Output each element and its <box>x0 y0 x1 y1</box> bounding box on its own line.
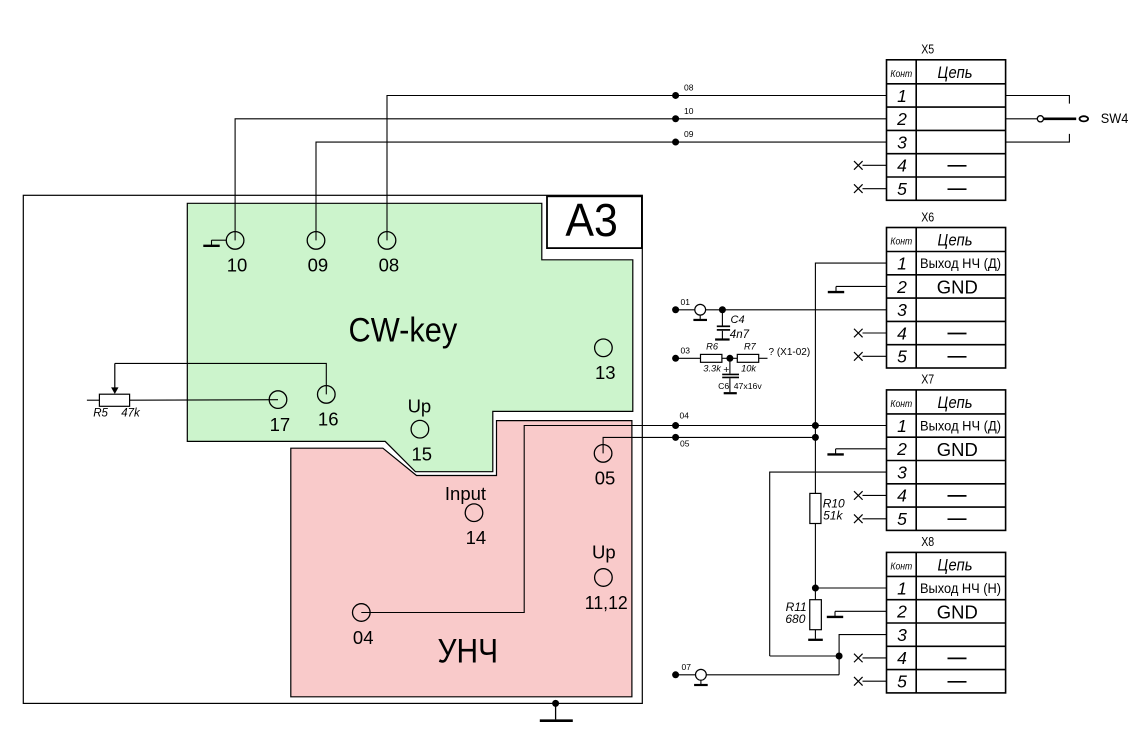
svg-text:15: 15 <box>412 444 433 465</box>
wire R10 to R11 <box>814 524 816 600</box>
wire X7 pin 3 down <box>770 472 887 656</box>
ground symbol under C4 <box>715 338 730 340</box>
svg-text:10: 10 <box>227 255 248 276</box>
connector X6 table <box>887 228 1006 369</box>
svg-text:C4: C4 <box>731 314 745 326</box>
svg-text:13: 13 <box>595 362 616 383</box>
svg-text:2: 2 <box>896 602 907 622</box>
svg-text:X7: X7 <box>921 372 934 387</box>
pin 17 terminal <box>269 391 287 409</box>
X5 pin 5 no-connect dash <box>948 188 967 190</box>
pin 14 terminal <box>465 504 483 522</box>
svg-text:A3: A3 <box>565 194 618 246</box>
pin 13 terminal <box>595 339 613 357</box>
capacitor C4 <box>717 310 730 339</box>
no-connect cross X7 pin 5 <box>854 514 863 523</box>
X7 pin 5 no-connect dash <box>948 518 967 520</box>
wire net 07 <box>676 674 840 676</box>
svg-text:CW-key: CW-key <box>349 311 458 349</box>
X5 pin 4 no-connect dash <box>948 165 967 167</box>
svg-text:? (X1-02): ? (X1-02) <box>769 347 811 358</box>
wire X5 pin 1 to SW4 throw A <box>1006 96 1070 104</box>
svg-text:5: 5 <box>897 509 907 529</box>
svg-text:4: 4 <box>897 156 907 176</box>
pin 08 terminal <box>378 232 396 250</box>
junction node net 03 left <box>672 355 679 362</box>
ground symbol at enclosure bottom <box>540 703 573 720</box>
svg-text:4: 4 <box>897 648 907 668</box>
svg-text:08: 08 <box>684 83 694 93</box>
junction node net 05 left <box>672 434 679 441</box>
wire X7 pin 4 stub <box>863 494 887 496</box>
junction node net 10 <box>672 115 679 122</box>
wire X7 pin 5 stub <box>863 518 887 520</box>
svg-text:R6: R6 <box>706 342 719 352</box>
svg-text:01: 01 <box>681 297 691 307</box>
junction node net 04 left <box>672 422 679 429</box>
svg-text:+: + <box>723 364 729 376</box>
wire R5 wiper to pin 16 <box>115 363 326 394</box>
X7 pin 4 no-connect dash <box>948 495 967 497</box>
ground symbol under C6 <box>724 392 737 394</box>
X6 pin 5 no-connect dash <box>948 356 967 358</box>
svg-text:4: 4 <box>897 323 907 343</box>
pin 11,12 terminal <box>595 569 613 587</box>
svg-text:GND: GND <box>937 601 978 622</box>
no-connect cross X8 pin 5 <box>854 677 863 686</box>
svg-text:10: 10 <box>684 106 694 116</box>
svg-text:5: 5 <box>897 347 907 367</box>
wire R11 to ground <box>814 630 816 639</box>
no-connect cross X6 pin 4 <box>854 329 863 338</box>
pin 16 terminal <box>318 386 336 404</box>
svg-text:УНЧ: УНЧ <box>438 632 499 670</box>
ground symbol at X6 pin 2 <box>828 286 887 292</box>
module designator A3 box <box>547 196 642 248</box>
ground symbol at pin 10 <box>203 240 226 246</box>
wire net 09: pin 09 to X5 pin 3 <box>316 142 887 240</box>
no-connect cross X8 pin 4 <box>854 654 863 663</box>
no-connect cross X5 pin 4 <box>854 161 863 170</box>
wire X7 pin 3 branch to junction <box>770 655 839 657</box>
wire X6 pin 1 to riser down to R10 <box>815 263 886 493</box>
svg-text:2: 2 <box>896 439 907 459</box>
wire net 04: pin 04 to X7 pin 1 <box>361 426 886 613</box>
resistor R10 <box>810 493 821 523</box>
CW-key green functional region <box>187 203 633 471</box>
junction node net 08 <box>672 92 679 99</box>
wire X5 pin 4 stub <box>863 164 887 166</box>
wire net 03 to R6 <box>676 357 701 359</box>
svg-text:Выход НЧ (Д): Выход НЧ (Д) <box>920 256 1001 271</box>
svg-text:1: 1 <box>897 578 907 598</box>
svg-text:03: 03 <box>681 346 691 356</box>
junction node net 09 <box>672 139 679 146</box>
junction node net 05 at riser <box>812 434 819 441</box>
svg-text:09: 09 <box>684 129 694 139</box>
svg-text:Цепь: Цепь <box>938 232 973 250</box>
svg-text:10k: 10k <box>741 364 757 374</box>
no-connect cross X7 pin 4 <box>854 491 863 500</box>
svg-text:47k: 47k <box>121 408 141 420</box>
junction node net 07 junction <box>836 653 843 660</box>
svg-text:R7: R7 <box>744 342 757 352</box>
svg-text:SW4: SW4 <box>1101 111 1129 126</box>
X6 pin 4 no-connect dash <box>948 333 967 335</box>
svg-text:X6: X6 <box>921 209 934 224</box>
svg-text:47x16v: 47x16v <box>734 381 763 391</box>
svg-text:C6: C6 <box>718 381 729 391</box>
svg-text:Up: Up <box>408 396 432 417</box>
svg-text:1: 1 <box>897 86 907 106</box>
X8 pin 5 no-connect dash <box>948 681 967 683</box>
junction node net 04 at riser <box>812 422 819 429</box>
svg-text:Конт: Конт <box>890 399 912 410</box>
svg-text:GND: GND <box>937 439 978 460</box>
svg-text:3: 3 <box>897 462 907 482</box>
svg-text:4: 4 <box>897 486 907 506</box>
svg-text:04: 04 <box>353 627 374 648</box>
pin 09 terminal <box>307 232 325 250</box>
wire R7 output stub <box>759 357 768 359</box>
svg-text:3.3k: 3.3k <box>703 364 722 374</box>
resistor R11 <box>810 600 822 630</box>
junction node net 01 left <box>672 306 679 313</box>
svg-text:16: 16 <box>318 409 339 430</box>
R5 wiper arrow <box>114 363 116 388</box>
svg-text:3: 3 <box>897 132 907 152</box>
svg-text:Цепь: Цепь <box>938 394 973 412</box>
wire to X8 pin 1 <box>815 587 886 589</box>
svg-text:Input: Input <box>445 483 486 504</box>
resistor R5 potentiometer body <box>87 394 130 406</box>
svg-text:Конт: Конт <box>890 237 912 248</box>
svg-text:Up: Up <box>592 541 616 562</box>
svg-text:GND: GND <box>937 276 978 297</box>
ground symbol at X8 pin 2 <box>827 611 887 617</box>
connector X5 table <box>887 60 1006 201</box>
switch SW4 <box>1037 116 1088 122</box>
svg-text:5: 5 <box>897 179 907 199</box>
svg-text:680: 680 <box>785 612 805 626</box>
svg-text:1: 1 <box>897 253 907 273</box>
connector X7 table <box>887 390 1006 531</box>
svg-text:04: 04 <box>680 410 690 420</box>
ground symbol at X7 pin 2 <box>827 449 886 455</box>
wire X5 pin 5 stub <box>863 188 887 190</box>
junction node net 07 left <box>672 671 679 678</box>
svg-text:08: 08 <box>379 255 400 276</box>
pin 05 terminal <box>594 445 612 463</box>
wire R6 to R7 <box>722 357 737 359</box>
svg-text:X5: X5 <box>921 42 934 57</box>
svg-text:14: 14 <box>466 527 487 548</box>
wire X5 pin 3 to SW4 throw B <box>1006 134 1070 142</box>
svg-text:1: 1 <box>897 416 907 436</box>
terminal circle with ground on net 01 <box>693 304 707 320</box>
svg-text:07: 07 <box>682 662 692 672</box>
junction node enclosure ground <box>552 700 559 707</box>
terminal circle with ground on net 07 <box>694 669 708 685</box>
svg-text:51k: 51k <box>823 508 843 522</box>
svg-text:Цепь: Цепь <box>938 64 973 82</box>
X8 pin 4 no-connect dash <box>948 657 967 659</box>
UNCh (audio amp) pink functional region <box>291 421 632 697</box>
svg-text:Конт: Конт <box>890 561 912 572</box>
module A3 outer boundary box <box>23 195 642 703</box>
svg-text:Конт: Конт <box>890 69 912 80</box>
connector X8 table <box>887 552 1006 693</box>
svg-text:05: 05 <box>595 468 616 489</box>
svg-text:Выход НЧ (Д): Выход НЧ (Д) <box>920 419 1001 434</box>
wire X8 pin 4 stub <box>863 657 887 659</box>
wire net 01: to X6 pin 3 <box>676 309 887 311</box>
svg-text:2: 2 <box>896 277 907 297</box>
pin 10 terminal <box>226 232 244 250</box>
svg-text:Цепь: Цепь <box>938 556 973 574</box>
svg-text:3: 3 <box>897 625 907 645</box>
resistor R7 <box>737 354 758 362</box>
wire X6 pin 4 stub <box>863 332 887 334</box>
junction node net 01 at C4 <box>719 306 726 313</box>
svg-text:X8: X8 <box>921 534 934 549</box>
junction node R10/R11/X8 pin 1 <box>812 585 819 592</box>
pin 15 terminal <box>411 420 429 438</box>
junction node R6/R7/C6 <box>726 355 733 362</box>
svg-text:2: 2 <box>896 109 907 129</box>
wire R5 to pin 17 <box>130 399 278 402</box>
svg-text:09: 09 <box>308 255 329 276</box>
wire X8 pin 3 down to net 07 <box>839 635 886 675</box>
capacitor C6 electrolytic <box>722 358 739 392</box>
resistor R6 <box>701 354 722 362</box>
svg-text:4n7: 4n7 <box>730 329 750 341</box>
wire net 10: pin 10 to X5 pin 2 <box>235 119 886 241</box>
svg-text:11,12: 11,12 <box>585 592 628 613</box>
no-connect cross X5 pin 5 <box>854 184 863 193</box>
pin 04 terminal <box>353 604 371 622</box>
no-connect cross X6 pin 5 <box>854 352 863 361</box>
wire X8 pin 5 stub <box>863 680 887 682</box>
wire X6 pin 5 stub <box>863 355 887 357</box>
svg-text:3: 3 <box>897 300 907 320</box>
wire net 05: pin 05 to riser <box>603 437 815 453</box>
svg-text:05: 05 <box>680 439 690 449</box>
wire X5 pin 2 to SW4 pole <box>1006 118 1038 120</box>
ground symbol under R11 <box>808 639 823 641</box>
svg-text:Выход НЧ (Н): Выход НЧ (Н) <box>920 581 1001 596</box>
svg-text:17: 17 <box>270 414 291 435</box>
svg-text:R5: R5 <box>93 408 108 420</box>
svg-text:5: 5 <box>897 672 907 692</box>
wire net 08: pin 08 to X5 pin 1 <box>387 96 887 241</box>
